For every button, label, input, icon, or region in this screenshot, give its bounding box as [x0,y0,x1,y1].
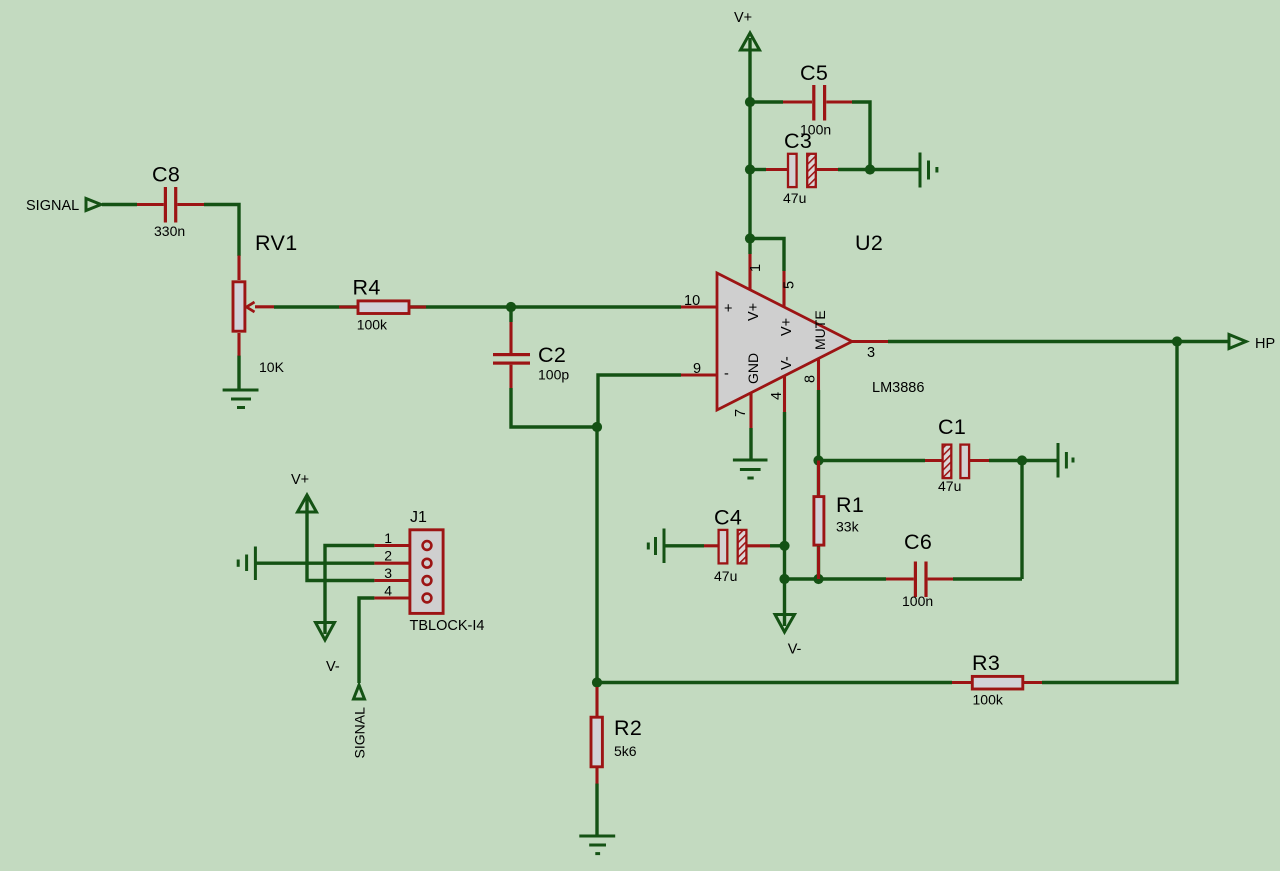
svg-text:C4: C4 [714,506,742,530]
svg-text:V+: V+ [734,10,752,26]
svg-text:2: 2 [384,548,392,564]
svg-text:47u: 47u [938,478,961,494]
svg-text:10: 10 [684,293,700,309]
svg-text:+: + [724,301,732,317]
svg-text:V-: V- [788,642,802,658]
svg-text:4: 4 [384,583,392,599]
svg-text:100k: 100k [357,317,388,333]
svg-text:330n: 330n [154,223,185,239]
svg-text:1: 1 [384,530,392,546]
svg-text:C8: C8 [152,163,180,187]
svg-text:R2: R2 [614,716,642,740]
svg-text:100n: 100n [800,122,831,138]
svg-text:-: - [724,366,729,382]
svg-text:V+: V+ [746,303,762,321]
svg-text:R3: R3 [972,651,1000,675]
svg-text:SIGNAL: SIGNAL [352,707,368,759]
svg-text:C1: C1 [938,415,966,439]
svg-text:J1: J1 [410,509,427,526]
svg-text:10K: 10K [259,359,285,375]
svg-text:V-: V- [779,356,795,370]
svg-text:C6: C6 [904,530,932,554]
svg-text:V+: V+ [779,318,795,336]
svg-text:C2: C2 [538,343,566,367]
svg-text:100k: 100k [973,692,1004,708]
svg-text:V+: V+ [291,472,309,488]
svg-text:9: 9 [693,361,701,377]
svg-text:5: 5 [782,281,798,289]
svg-text:5k6: 5k6 [614,743,637,759]
svg-text:4: 4 [769,392,785,400]
svg-text:R1: R1 [836,493,864,517]
svg-text:100p: 100p [538,367,569,383]
svg-text:GND: GND [745,353,761,384]
svg-text:47u: 47u [783,190,806,206]
svg-text:47u: 47u [714,568,737,584]
svg-text:7: 7 [733,409,749,417]
svg-text:3: 3 [867,345,875,361]
svg-text:SIGNAL: SIGNAL [26,198,79,214]
svg-text:HP: HP [1255,336,1275,352]
svg-text:33k: 33k [836,519,860,535]
svg-text:C5: C5 [800,61,828,85]
svg-text:U2: U2 [855,231,883,255]
svg-text:MUTE: MUTE [812,310,828,350]
svg-text:3: 3 [384,565,392,581]
svg-text:R4: R4 [353,276,381,300]
svg-text:1: 1 [748,264,764,272]
svg-text:TBLOCK-I4: TBLOCK-I4 [410,618,485,634]
svg-text:8: 8 [803,375,819,383]
svg-text:RV1: RV1 [255,231,298,255]
svg-text:V-: V- [326,659,340,675]
svg-text:100n: 100n [902,593,933,609]
svg-text:LM3886: LM3886 [872,380,924,396]
